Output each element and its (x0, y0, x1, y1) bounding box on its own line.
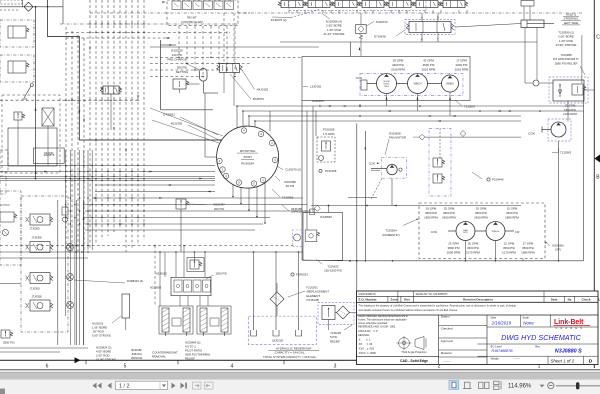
page box caret (162, 384, 166, 387)
filter F2J0261 (270, 292, 284, 306)
scrollbar top edge (0, 371, 600, 373)
joint port (223, 173, 228, 178)
wire arrow (497, 110, 500, 112)
junction (91, 180, 93, 182)
wire arrow (343, 105, 346, 107)
svg-text:CONTROLLER: CONTROLLER (181, 20, 203, 24)
pump port (361, 80, 367, 90)
svg-text:ANGULAR ± 1°: ANGULAR ± 1° (358, 329, 378, 333)
wire (69, 150, 71, 345)
valve V3 (335, 1, 357, 8)
wire (328, 206, 330, 213)
pump shafts (448, 230, 456, 232)
wire (335, 312, 337, 314)
valve detail (12, 26, 14, 38)
svg-text:FAN MOTOR: FAN MOTOR (389, 136, 406, 140)
icon single page selected (449, 381, 459, 390)
junction (87, 210, 89, 212)
wire (161, 44, 177, 46)
wire (439, 129, 441, 159)
leader (277, 166, 283, 170)
svg-text:J7J0309: J7J0309 (29, 286, 40, 290)
svg-text:T2J6364: T2J6364 (385, 229, 397, 233)
valve inner box (8, 128, 57, 166)
joint port (269, 140, 274, 145)
wire (85, 217, 270, 219)
wire arrow (35, 107, 37, 111)
junction (107, 223, 109, 225)
junction (101, 176, 103, 178)
junction (131, 23, 132, 24)
wire (150, 69, 218, 71)
wire (226, 26, 228, 70)
border arrow marker right (595, 155, 600, 163)
valve block (0, 150, 8, 172)
svg-text:Drawn: Drawn (441, 315, 450, 319)
wire arrow (89, 47, 91, 50)
junction (125, 180, 127, 182)
junction (202, 76, 204, 78)
svg-text:D4J0690: D4J0690 (320, 215, 332, 219)
junction (95, 178, 97, 180)
wire (581, 35, 583, 83)
axle cyl cap (521, 1, 534, 7)
junction (143, 223, 145, 225)
leader (230, 74, 251, 99)
wire arrow (393, 205, 396, 207)
valve mid (220, 64, 240, 73)
junction (137, 23, 138, 24)
wire arrow (165, 37, 168, 39)
svg-text:WINCH: WINCH (414, 83, 422, 85)
junction (125, 23, 126, 24)
wire (66, 37, 170, 39)
leader (242, 70, 255, 90)
port circle (533, 80, 539, 86)
wire arrow (125, 149, 127, 152)
junction (95, 197, 97, 199)
junction (359, 115, 361, 117)
wire (22, 0, 24, 7)
crossover mark (65, 99, 67, 101)
wire (194, 26, 196, 70)
junction (65, 204, 67, 206)
fan motor (387, 164, 397, 174)
third angle projection symbol (399, 338, 410, 349)
manifold box (171, 277, 211, 295)
leader (74, 280, 125, 283)
svg-text:2175 RPM: 2175 RPM (502, 251, 516, 255)
svg-text:3600 PSI: 3600 PSI (467, 246, 479, 250)
leader (546, 242, 551, 246)
svg-text:(XP): (XP) (555, 248, 561, 252)
junction (101, 23, 102, 24)
wire (203, 81, 205, 93)
svg-text:19 GPM: 19 GPM (426, 207, 437, 211)
wire arrow (167, 184, 170, 186)
junction (131, 210, 133, 212)
wire (161, 109, 214, 111)
port diamond (419, 134, 425, 140)
junction (137, 217, 139, 219)
wire (421, 33, 423, 43)
junction (236, 105, 238, 107)
valve (8, 61, 26, 73)
wire (254, 121, 256, 127)
tb divider (549, 315, 551, 327)
crossover mark (125, 99, 127, 101)
joint port (220, 167, 225, 172)
junction (143, 178, 145, 180)
junction (113, 204, 115, 206)
svg-text:1500 PSI: 1500 PSI (216, 271, 228, 275)
crossover mark (95, 99, 97, 101)
junction (254, 120, 256, 122)
wire (150, 46, 319, 48)
solenoid valve 65J0575 (42, 108, 54, 126)
wire arrow (437, 120, 440, 122)
port sym (2, 229, 8, 235)
junction (101, 180, 103, 182)
wire (256, 187, 258, 217)
leader (272, 189, 280, 197)
tb divider (534, 343, 548, 345)
junction (113, 176, 115, 178)
wire arrow (508, 110, 511, 112)
svg-text:4: 4 (231, 363, 234, 369)
wire (311, 205, 521, 207)
wire (275, 252, 277, 316)
junction (248, 115, 250, 117)
zone tick (283, 360, 285, 364)
wire (85, 204, 307, 206)
junction (119, 197, 121, 199)
svg-text:Sheet 1 of 2: Sheet 1 of 2 (551, 358, 575, 363)
relief (433, 158, 442, 167)
svg-text:Zone: Zone (390, 298, 397, 302)
junction (119, 23, 120, 24)
wire arrow (159, 197, 162, 199)
valve (8, 26, 26, 38)
svg-text:2175 RPM: 2175 RPM (466, 251, 480, 255)
wire (107, 0, 109, 236)
wire (83, 200, 85, 345)
pump envelope (360, 74, 463, 96)
svg-text:RELIEF: RELIEF (185, 356, 195, 360)
pump FAN2 (456, 222, 475, 241)
junction (125, 32, 126, 33)
valve envelope (549, 77, 588, 103)
svg-text:1600 RPM: 1600 RPM (447, 251, 461, 255)
wire (204, 92, 219, 94)
wire (194, 252, 196, 262)
accumulator (200, 69, 208, 82)
wire (523, 6, 525, 20)
port circle (487, 178, 490, 181)
icon last page (181, 383, 185, 389)
wire (0, 165, 215, 167)
svg-text:SIMILAR TO N3J0887D: SIMILAR TO N3J0887D (416, 292, 449, 296)
leader (275, 176, 280, 181)
wire (360, 13, 362, 25)
junction (101, 217, 103, 219)
junction (83, 180, 85, 182)
wire (276, 283, 278, 292)
svg-text:65J0575: 65J0575 (253, 97, 264, 101)
svg-text:T2J0363: T2J0363 (560, 151, 572, 155)
wire (234, 26, 236, 77)
valve block (0, 55, 34, 82)
page box divider (159, 381, 161, 389)
junction (119, 171, 121, 173)
wire (218, 26, 220, 64)
wire (364, 131, 366, 261)
label underline (237, 152, 258, 154)
wire (356, 123, 358, 303)
svg-text:3800 PSI: 3800 PSI (448, 246, 460, 250)
svg-text:65J0575: 65J0575 (44, 153, 55, 157)
wire arrow (207, 191, 210, 193)
svg-text:E3J0229: E3J0229 (171, 49, 183, 53)
solenoid X (42, 108, 54, 126)
svg-text:--------: -------- (443, 359, 451, 363)
wire (74, 150, 76, 345)
wire (536, 28, 538, 81)
wire (455, 24, 521, 28)
junction (137, 204, 139, 206)
svg-text:(DOMESTIC): (DOMESTIC) (382, 233, 399, 237)
zone tick (85, 360, 87, 364)
leader (580, 66, 585, 75)
junction (107, 23, 108, 24)
junction (137, 180, 139, 182)
junction (131, 223, 133, 225)
flow control (322, 141, 331, 151)
svg-text:R18748887B: R18748887B (492, 349, 514, 353)
joint port (258, 131, 263, 136)
wire (205, 156, 217, 158)
svg-text:Checked: Checked (441, 327, 453, 331)
valve V7 (443, 1, 465, 8)
junction (264, 222, 266, 224)
wire (567, 101, 569, 122)
svg-text:3500 PSI: 3500 PSI (475, 211, 487, 215)
solenoid J7J0309 (30, 214, 50, 225)
wire (253, 252, 255, 316)
junction (328, 205, 330, 207)
valve V6 (416, 1, 438, 8)
wire (47, 126, 49, 165)
wire (233, 13, 235, 64)
svg-text:N3J0193: N3J0193 (156, 271, 168, 275)
wire (89, 0, 91, 248)
wire (95, 0, 97, 244)
toolbar (0, 380, 600, 394)
valve block T2J6422 (303, 213, 343, 261)
junction (539, 110, 541, 112)
wire (522, 259, 524, 261)
svg-text:None: None (523, 321, 534, 326)
wire (243, 110, 584, 112)
junction (95, 32, 96, 33)
junction (113, 23, 114, 24)
leader (288, 291, 305, 297)
svg-text:N3J0354: N3J0354 (312, 99, 324, 103)
leader (188, 125, 221, 141)
junction (143, 197, 145, 199)
valve (173, 79, 186, 89)
tb divider (438, 315, 440, 365)
svg-text:Date: Date (551, 298, 558, 302)
junction (107, 210, 109, 212)
svg-text:REFERENCE ANSI Y14.5M - 1982: REFERENCE ANSI Y14.5M - 1982 (358, 326, 396, 329)
leader (150, 108, 223, 136)
port diamond (460, 131, 466, 137)
tb divider (487, 326, 598, 328)
wire (386, 94, 388, 107)
pump group box (302, 57, 470, 101)
junction (137, 176, 139, 178)
valve (0, 212, 14, 222)
wire (524, 28, 526, 84)
wire (248, 188, 250, 210)
leader (403, 219, 418, 226)
crossover mark (89, 99, 91, 101)
solenoid J7J0309 b (30, 273, 50, 284)
crossover mark (83, 99, 85, 101)
junction (74, 217, 76, 219)
svg-text:C1J6070 (2): C1J6070 (2) (285, 168, 301, 172)
wire (0, 257, 88, 259)
wire (87, 150, 89, 250)
svg-text:Weight: Weight (491, 357, 500, 361)
valve sub (310, 209, 315, 215)
svg-text:3500 PSI: 3500 PSI (506, 211, 518, 215)
cyl group box (159, 306, 193, 334)
svg-text:5.00" STROKE: 5.00" STROKE (92, 334, 111, 338)
wire (210, 26, 212, 58)
svg-text:CCW: CCW (356, 76, 363, 80)
check valve diamond (24, 2, 33, 11)
wire (154, 246, 156, 307)
svg-text:DWG HYD SCHEMATIC: DWG HYD SCHEMATIC (501, 333, 581, 342)
svg-text:ROTATING: ROTATING (240, 149, 256, 153)
leader (316, 259, 322, 264)
svg-text:J7J0308: J7J0308 (31, 236, 42, 240)
icon first page (98, 383, 102, 389)
relief N3J0437 (176, 199, 186, 209)
wire (159, 252, 161, 306)
sheet outer bottom border (0, 369, 600, 371)
relief (433, 174, 442, 183)
port circle (291, 273, 294, 276)
junction (65, 176, 67, 178)
valve V1 (281, 1, 303, 8)
wire (328, 320, 330, 331)
wire arrow (113, 127, 115, 130)
junction (234, 76, 236, 78)
svg-text:Check: Check (581, 298, 590, 302)
zoom slider (556, 385, 600, 387)
svg-text:45J1338: 45J1338 (171, 121, 182, 125)
wire (391, 178, 393, 205)
wire arrow (137, 95, 139, 98)
leader (472, 172, 482, 179)
wire (66, 32, 230, 34)
leader (303, 86, 308, 88)
zone tick (177, 360, 179, 364)
junction (95, 210, 97, 212)
leader (112, 316, 121, 323)
wire (101, 0, 103, 240)
solenoid J7J0308 b (30, 300, 50, 311)
tb divider (357, 355, 439, 357)
junction (91, 176, 93, 178)
svg-text:2016 RPM: 2016 RPM (422, 67, 436, 71)
rotating joint circle (217, 126, 279, 188)
check valve stack (356, 25, 367, 34)
svg-text:Third Angle Projection: Third Angle Projection (401, 350, 427, 354)
strainer (253, 316, 255, 330)
svg-text:Revision Description: Revision Description (463, 298, 493, 302)
svg-text:17 GPM: 17 GPM (456, 59, 467, 63)
wire (48, 0, 222, 140)
cylinder (200, 308, 207, 332)
icon two page (479, 382, 484, 388)
wire (186, 26, 188, 64)
svg-text:25 GPM: 25 GPM (444, 207, 455, 211)
strainer (298, 316, 300, 330)
wire (183, 246, 185, 278)
junction (392, 260, 394, 262)
svg-text:42 GPM: 42 GPM (423, 59, 434, 63)
wire (240, 187, 242, 203)
crossover mark (113, 99, 115, 101)
wire (35, 7, 37, 179)
icon prev page (108, 383, 112, 389)
wire arrow (71, 98, 73, 101)
svg-text:D7J0561: D7J0561 (163, 113, 175, 117)
wire (350, 260, 584, 262)
junction (125, 176, 127, 178)
junction (74, 165, 76, 167)
junction (253, 251, 255, 253)
svg-text:6: 6 (46, 363, 49, 369)
svg-text:P3J0449: P3J0449 (492, 178, 504, 182)
svg-text:CAD - Solid Edge: CAD - Solid Edge (400, 359, 428, 363)
cylinder (162, 308, 169, 332)
leader (455, 100, 462, 106)
junction (218, 63, 220, 65)
wire (113, 0, 115, 232)
valve block (21, 196, 68, 332)
svg-text:CRANES: CRANES (556, 327, 586, 330)
valve block (0, 191, 21, 265)
svg-text:E.O. Number: E.O. Number (359, 298, 378, 302)
junction (69, 251, 71, 253)
svg-text:WINCH: WINCH (492, 231, 500, 233)
junction (107, 32, 108, 33)
relief sub (572, 84, 583, 95)
cyl group box (197, 306, 231, 334)
valve envelope (405, 20, 455, 35)
svg-text:3600 PSI: 3600 PSI (443, 211, 455, 215)
svg-text:150-1500 PSI: 150-1500 PSI (324, 269, 342, 273)
valve D7J0438 (409, 22, 451, 33)
svg-text:LEFT SIDE: LEFT SIDE (564, 21, 579, 25)
wire (0, 245, 296, 247)
svg-text:5: 5 (124, 363, 127, 369)
